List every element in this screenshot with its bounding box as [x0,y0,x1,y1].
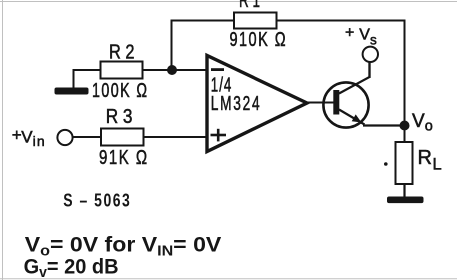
node Vo junction dot [400,121,410,131]
transistor Q1 collector lead [339,62,370,94]
wire R3 to non-inverting input [144,136,208,138]
svg-text:R 2: R 2 [109,41,135,63]
wire Vs to collector [368,61,370,78]
wire Vin to R3 [73,136,101,138]
svg-text:Vo: Vo [412,111,433,135]
transistor Q1 emitter arrow [352,114,362,122]
node junction dot (inverting input) [167,65,177,75]
ground G1 (R2 input ground) [55,88,89,95]
svg-text:RL: RL [418,147,442,174]
wire from ground up to R2 [74,70,101,88]
wire RL to ground [403,184,405,197]
svg-text:R 3: R 3 [106,106,133,128]
svg-text:Gv= 20 dB: Gv= 20 dB [24,255,119,280]
op-amp minus input marker [211,68,224,71]
wire emitter to output node [363,124,405,126]
svg-text:910K Ω: 910K Ω [230,29,288,51]
svg-text:S – 5063: S – 5063 [63,190,131,211]
wire feedback vertical from inverting node to top [171,21,173,71]
transistor Q1 emitter lead [339,110,365,125]
svg-text:R 1: R 1 [239,0,260,12]
op-amp plus input marker [211,129,227,142]
svg-text:100K Ω: 100K Ω [92,80,149,102]
svg-text:Vs: Vs [359,27,377,48]
transistor Q1 circle [323,82,368,127]
wire op-amp output to transistor base [306,102,334,104]
terminal +Vin [57,130,72,145]
svg-text:+: + [345,25,354,42]
wire top feedback right segment [277,20,406,22]
op-amp U1 triangle [207,56,307,152]
svg-text:LM324: LM324 [211,93,261,115]
ground G2 (output load ground) [387,197,424,204]
wire R2 to inverting input [143,69,208,71]
resistor R1 [234,13,277,29]
resistor R2 [101,62,143,79]
resistor R3 [101,129,144,146]
transistor Q1 base bar [333,90,339,115]
wire top feedback left segment [171,20,235,22]
wire right vertical rail [404,20,406,143]
svg-text:Vin: Vin [21,128,45,150]
svg-text:91K Ω: 91K Ω [99,147,149,169]
speck dot left of RL [384,162,388,166]
svg-text:+: + [12,126,22,145]
terminal +Vs [363,47,378,62]
resistor RL [396,142,413,184]
